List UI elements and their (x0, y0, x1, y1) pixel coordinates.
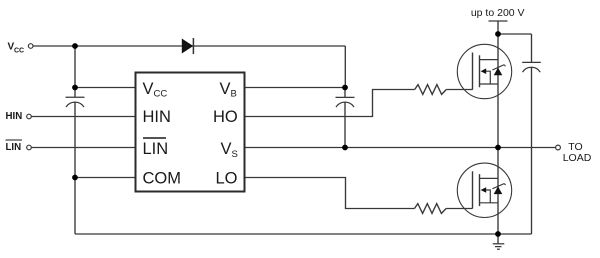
svg-text:V: V (221, 140, 232, 158)
svg-text:HIN: HIN (6, 111, 23, 122)
svg-text:LO: LO (216, 170, 238, 188)
svg-text:B: B (231, 89, 237, 100)
svg-text:S: S (232, 149, 238, 160)
svg-text:V: V (143, 80, 154, 98)
svg-text:COM: COM (143, 170, 182, 188)
svg-text:up to 200 V: up to 200 V (471, 7, 525, 19)
svg-text:LIN: LIN (6, 142, 22, 153)
svg-text:HIN: HIN (143, 108, 171, 126)
svg-text:LOAD: LOAD (563, 152, 592, 164)
svg-text:HO: HO (213, 108, 238, 126)
svg-text:V: V (220, 80, 231, 98)
svg-text:CC: CC (14, 47, 24, 54)
svg-text:LIN: LIN (143, 140, 169, 158)
svg-text:CC: CC (154, 89, 168, 100)
